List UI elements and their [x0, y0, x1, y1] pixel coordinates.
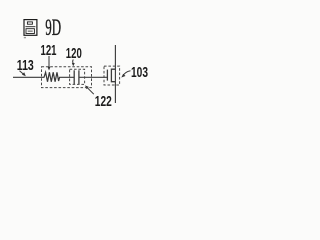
capacitor C(122) right plate	[78, 70, 80, 84]
leader arrow for 121	[48, 56, 51, 71]
element 103 bracket electrode	[111, 69, 115, 83]
wire from capacitor to element 103	[79, 76, 108, 78]
element 103 left electrode plate	[106, 70, 108, 81]
leader arrow for 120	[72, 60, 75, 67]
main horizontal wire with resistor R(121)	[13, 72, 74, 81]
vertical wire through element 103	[114, 45, 116, 103]
leader arrow for 103	[121, 71, 130, 78]
dashed enclosure box 120	[42, 67, 92, 88]
small speck below title glyph	[24, 37, 26, 38]
svg-text:122: 122	[95, 93, 112, 110]
dashed enclosure box around capacitor 122	[70, 69, 85, 84]
leader arrow for 113	[20, 71, 26, 76]
leader arrow for 122	[85, 85, 94, 94]
svg-text:113: 113	[17, 57, 34, 74]
svg-text:103: 103	[131, 64, 148, 81]
dashed enclosure box 103	[104, 66, 120, 85]
figure title glyph 圖	[24, 20, 37, 36]
capacitor C(122) left plate	[73, 70, 75, 84]
svg-text:120: 120	[66, 45, 82, 62]
svg-text:9D: 9D	[45, 15, 61, 40]
